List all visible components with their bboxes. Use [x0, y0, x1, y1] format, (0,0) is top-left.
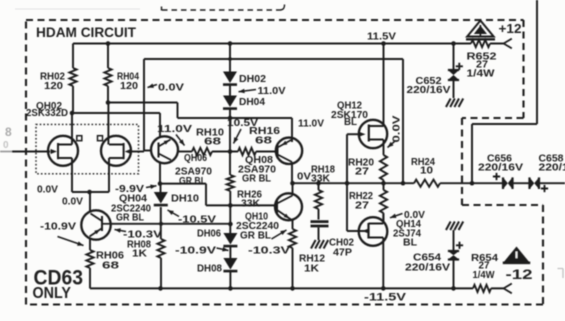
svg-text:GR BL: GR BL [240, 230, 272, 242]
svg-text:DH08: DH08 [197, 263, 222, 275]
svg-text:11.0V: 11.0V [157, 123, 192, 135]
svg-text:-10.9V: -10.9V [40, 221, 76, 233]
svg-text:-10.9V: -10.9V [175, 245, 216, 257]
svg-text:11.0V: 11.0V [298, 118, 324, 130]
svg-text:GR BL: GR BL [179, 175, 206, 187]
svg-text:0: 0 [3, 140, 9, 151]
svg-text:27: 27 [355, 200, 369, 212]
svg-text:220/16V: 220/16V [478, 162, 523, 174]
svg-text:68: 68 [204, 136, 221, 148]
svg-text:68: 68 [255, 135, 272, 147]
svg-text:GR BL: GR BL [116, 212, 144, 224]
svg-text:33K: 33K [241, 198, 260, 210]
svg-text:+12: +12 [499, 21, 522, 36]
svg-text:0.0V: 0.0V [391, 116, 403, 143]
svg-text:120: 120 [120, 80, 138, 92]
svg-text:1/4W: 1/4W [467, 68, 495, 80]
svg-text:0V: 0V [297, 171, 311, 183]
svg-text:68: 68 [102, 260, 119, 272]
svg-text:BL: BL [403, 237, 418, 249]
svg-text:DH06: DH06 [197, 228, 221, 240]
svg-text:HDAM CIRCUIT: HDAM CIRCUIT [36, 25, 137, 40]
svg-text:DH04: DH04 [239, 96, 265, 108]
svg-text:0.0V: 0.0V [158, 82, 184, 94]
svg-text:10: 10 [420, 165, 433, 177]
svg-text:-11.5V: -11.5V [364, 292, 407, 304]
svg-text:ONLY: ONLY [33, 285, 72, 302]
svg-text:33K: 33K [311, 173, 330, 185]
svg-text:GR BL: GR BL [242, 173, 272, 185]
svg-text:220/16V: 220/16V [405, 262, 450, 274]
svg-text:DH02: DH02 [239, 73, 266, 85]
svg-text:-12: -12 [506, 267, 533, 282]
svg-text:1K: 1K [304, 263, 319, 275]
svg-text:0.0V: 0.0V [62, 196, 83, 208]
svg-text:1/4W: 1/4W [473, 269, 495, 281]
svg-text:47P: 47P [333, 247, 352, 259]
svg-text:DH10: DH10 [171, 193, 199, 205]
svg-text:2SK332D: 2SK332D [26, 107, 68, 119]
svg-text:120: 120 [44, 80, 63, 92]
svg-text:BL: BL [344, 116, 358, 128]
svg-text:11.0V: 11.0V [258, 85, 286, 97]
svg-text:27: 27 [355, 166, 369, 178]
svg-text:11.5V: 11.5V [367, 31, 396, 43]
svg-text:-10.5V: -10.5V [178, 214, 216, 226]
svg-text:1K: 1K [132, 248, 147, 260]
svg-text:220/16V: 220/16V [407, 84, 451, 96]
svg-text:220/16V: 220/16V [539, 162, 565, 174]
svg-text:8: 8 [5, 125, 12, 139]
svg-text:0.0V: 0.0V [37, 184, 58, 196]
svg-text:-10.3V: -10.3V [248, 245, 290, 257]
